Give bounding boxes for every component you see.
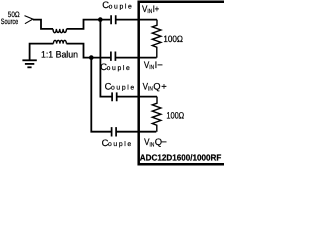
svg-text:I+: I+ (153, 3, 160, 14)
pin label Vin Q+ (143, 80, 168, 92)
capacitor C2 Ccouple (Vin I-) (100, 52, 130, 73)
transformer T1 secondary winding (53, 40, 66, 43)
capacitor C3 Ccouple (Vin Q+) (105, 81, 135, 102)
svg-text:IN: IN (150, 141, 155, 148)
svg-text:100Ω: 100Ω (166, 110, 184, 120)
svg-text:ouple: ouple (109, 3, 132, 10)
resistor R2 100 ohm (Q channel) (152, 97, 161, 132)
svg-text:IN: IN (148, 86, 153, 93)
svg-text:Q−: Q− (155, 136, 168, 147)
svg-text:Q+: Q+ (153, 80, 167, 91)
wire source to balun primary (33, 20, 53, 29)
wire C4 to Vin Q- pin (116, 131, 156, 133)
source output chevron (25, 16, 33, 24)
svg-text:ADC12D1600/1000RF: ADC12D1600/1000RF (140, 152, 222, 162)
junction node B (89, 55, 94, 60)
svg-text:ouple: ouple (107, 65, 130, 72)
svg-text:1:1 Balun: 1:1 Balun (41, 49, 78, 59)
svg-text:ouple: ouple (111, 85, 134, 92)
svg-text:ouple: ouple (108, 141, 131, 148)
junction node A (98, 17, 103, 22)
label 50 ohm Source (1, 10, 20, 26)
svg-text:IN: IN (147, 8, 152, 15)
pin label Vin I- (144, 59, 163, 71)
capacitor C4 Ccouple (Vin Q-) (102, 127, 132, 148)
wire balun secondary to node B (66, 44, 110, 58)
bus wire node B to C4 (Vin Q-) (91, 59, 111, 132)
ADC12D1600/1000RF box outline (139, 2, 224, 165)
bus wire node A to C3 (Vin Q+) (100, 21, 112, 97)
svg-text:Source: Source (1, 17, 18, 26)
wire C2 to Vin I- pin (115, 57, 156, 59)
ground (22, 60, 36, 67)
capacitor C1 Ccouple (Vin I+) (102, 0, 132, 24)
wire C1 to Vin I+ pin (116, 19, 157, 21)
svg-text:IN: IN (149, 64, 154, 71)
wire C3 to Vin Q+ pin (117, 96, 157, 98)
svg-text:I−: I− (155, 59, 164, 70)
resistor R1 100 ohm (I channel) (152, 20, 161, 58)
wire balun primary to node A (67, 20, 111, 29)
pin label Vin Q- (144, 136, 167, 148)
transformer T1 primary winding (53, 29, 67, 33)
wire balun secondary to ground (30, 44, 54, 60)
svg-text:100Ω: 100Ω (163, 34, 183, 44)
pin label Vin I+ (142, 3, 160, 15)
